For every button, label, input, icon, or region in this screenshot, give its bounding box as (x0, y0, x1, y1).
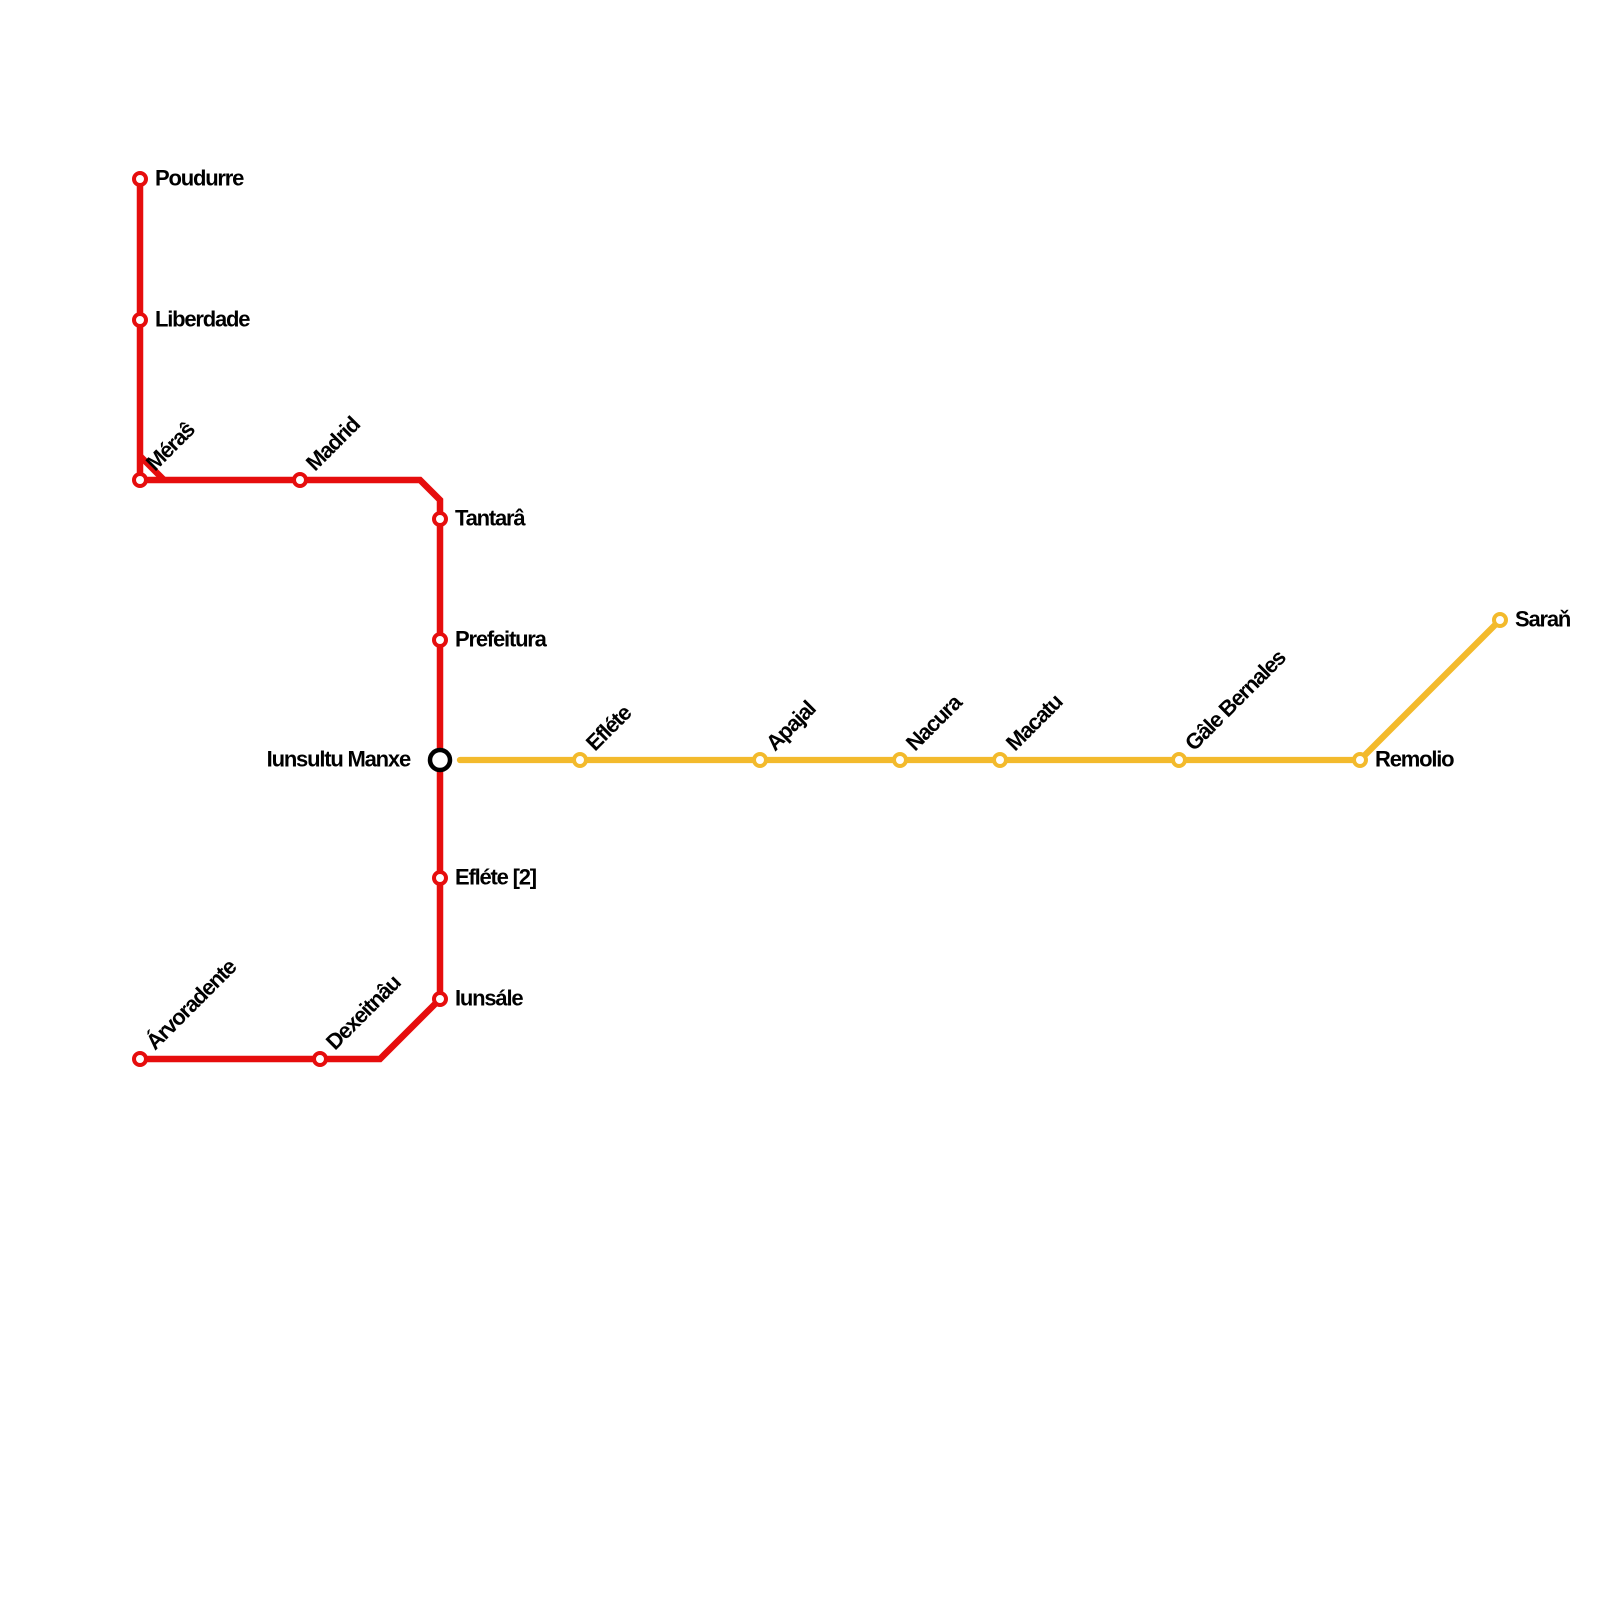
station Poudurre (134, 173, 146, 185)
station Tantarâ (434, 513, 446, 525)
svg-text:Iunsále: Iunsále (455, 986, 523, 1011)
svg-text:Poudurre: Poudurre (155, 166, 244, 191)
svg-text:Tantarâ: Tantarâ (455, 506, 526, 531)
station Madrid (294, 474, 306, 486)
station Iunsále (434, 993, 446, 1005)
svg-text:Remolio: Remolio (1375, 747, 1454, 772)
yellow line (460, 620, 1500, 760)
station Macatu (994, 754, 1006, 766)
interchange Iunsultu Manxe (430, 750, 450, 770)
svg-text:Liberdade: Liberdade (155, 307, 250, 332)
svg-text:Iunsultu Manxe: Iunsultu Manxe (267, 747, 411, 772)
station Efléte (574, 754, 586, 766)
station Dexeitnâu (314, 1053, 326, 1065)
station Árvoradente (134, 1053, 146, 1065)
station Prefeitura (434, 634, 446, 646)
station Remolio (1354, 754, 1366, 766)
station Saraň (1494, 614, 1506, 626)
station Gâle Bernales (1173, 754, 1185, 766)
station Nacura (894, 754, 906, 766)
station Méraŝ (134, 474, 146, 486)
station Efléte [2] (434, 872, 446, 884)
svg-text:Efléte [2]: Efléte [2] (455, 865, 537, 890)
station Apajal (754, 754, 766, 766)
red line (140, 179, 440, 1059)
svg-text:Saraň: Saraň (1515, 607, 1571, 632)
svg-text:Prefeitura: Prefeitura (455, 627, 548, 652)
red line chamfer at Méraŝ corner (140, 456, 164, 480)
station Liberdade (134, 314, 146, 326)
